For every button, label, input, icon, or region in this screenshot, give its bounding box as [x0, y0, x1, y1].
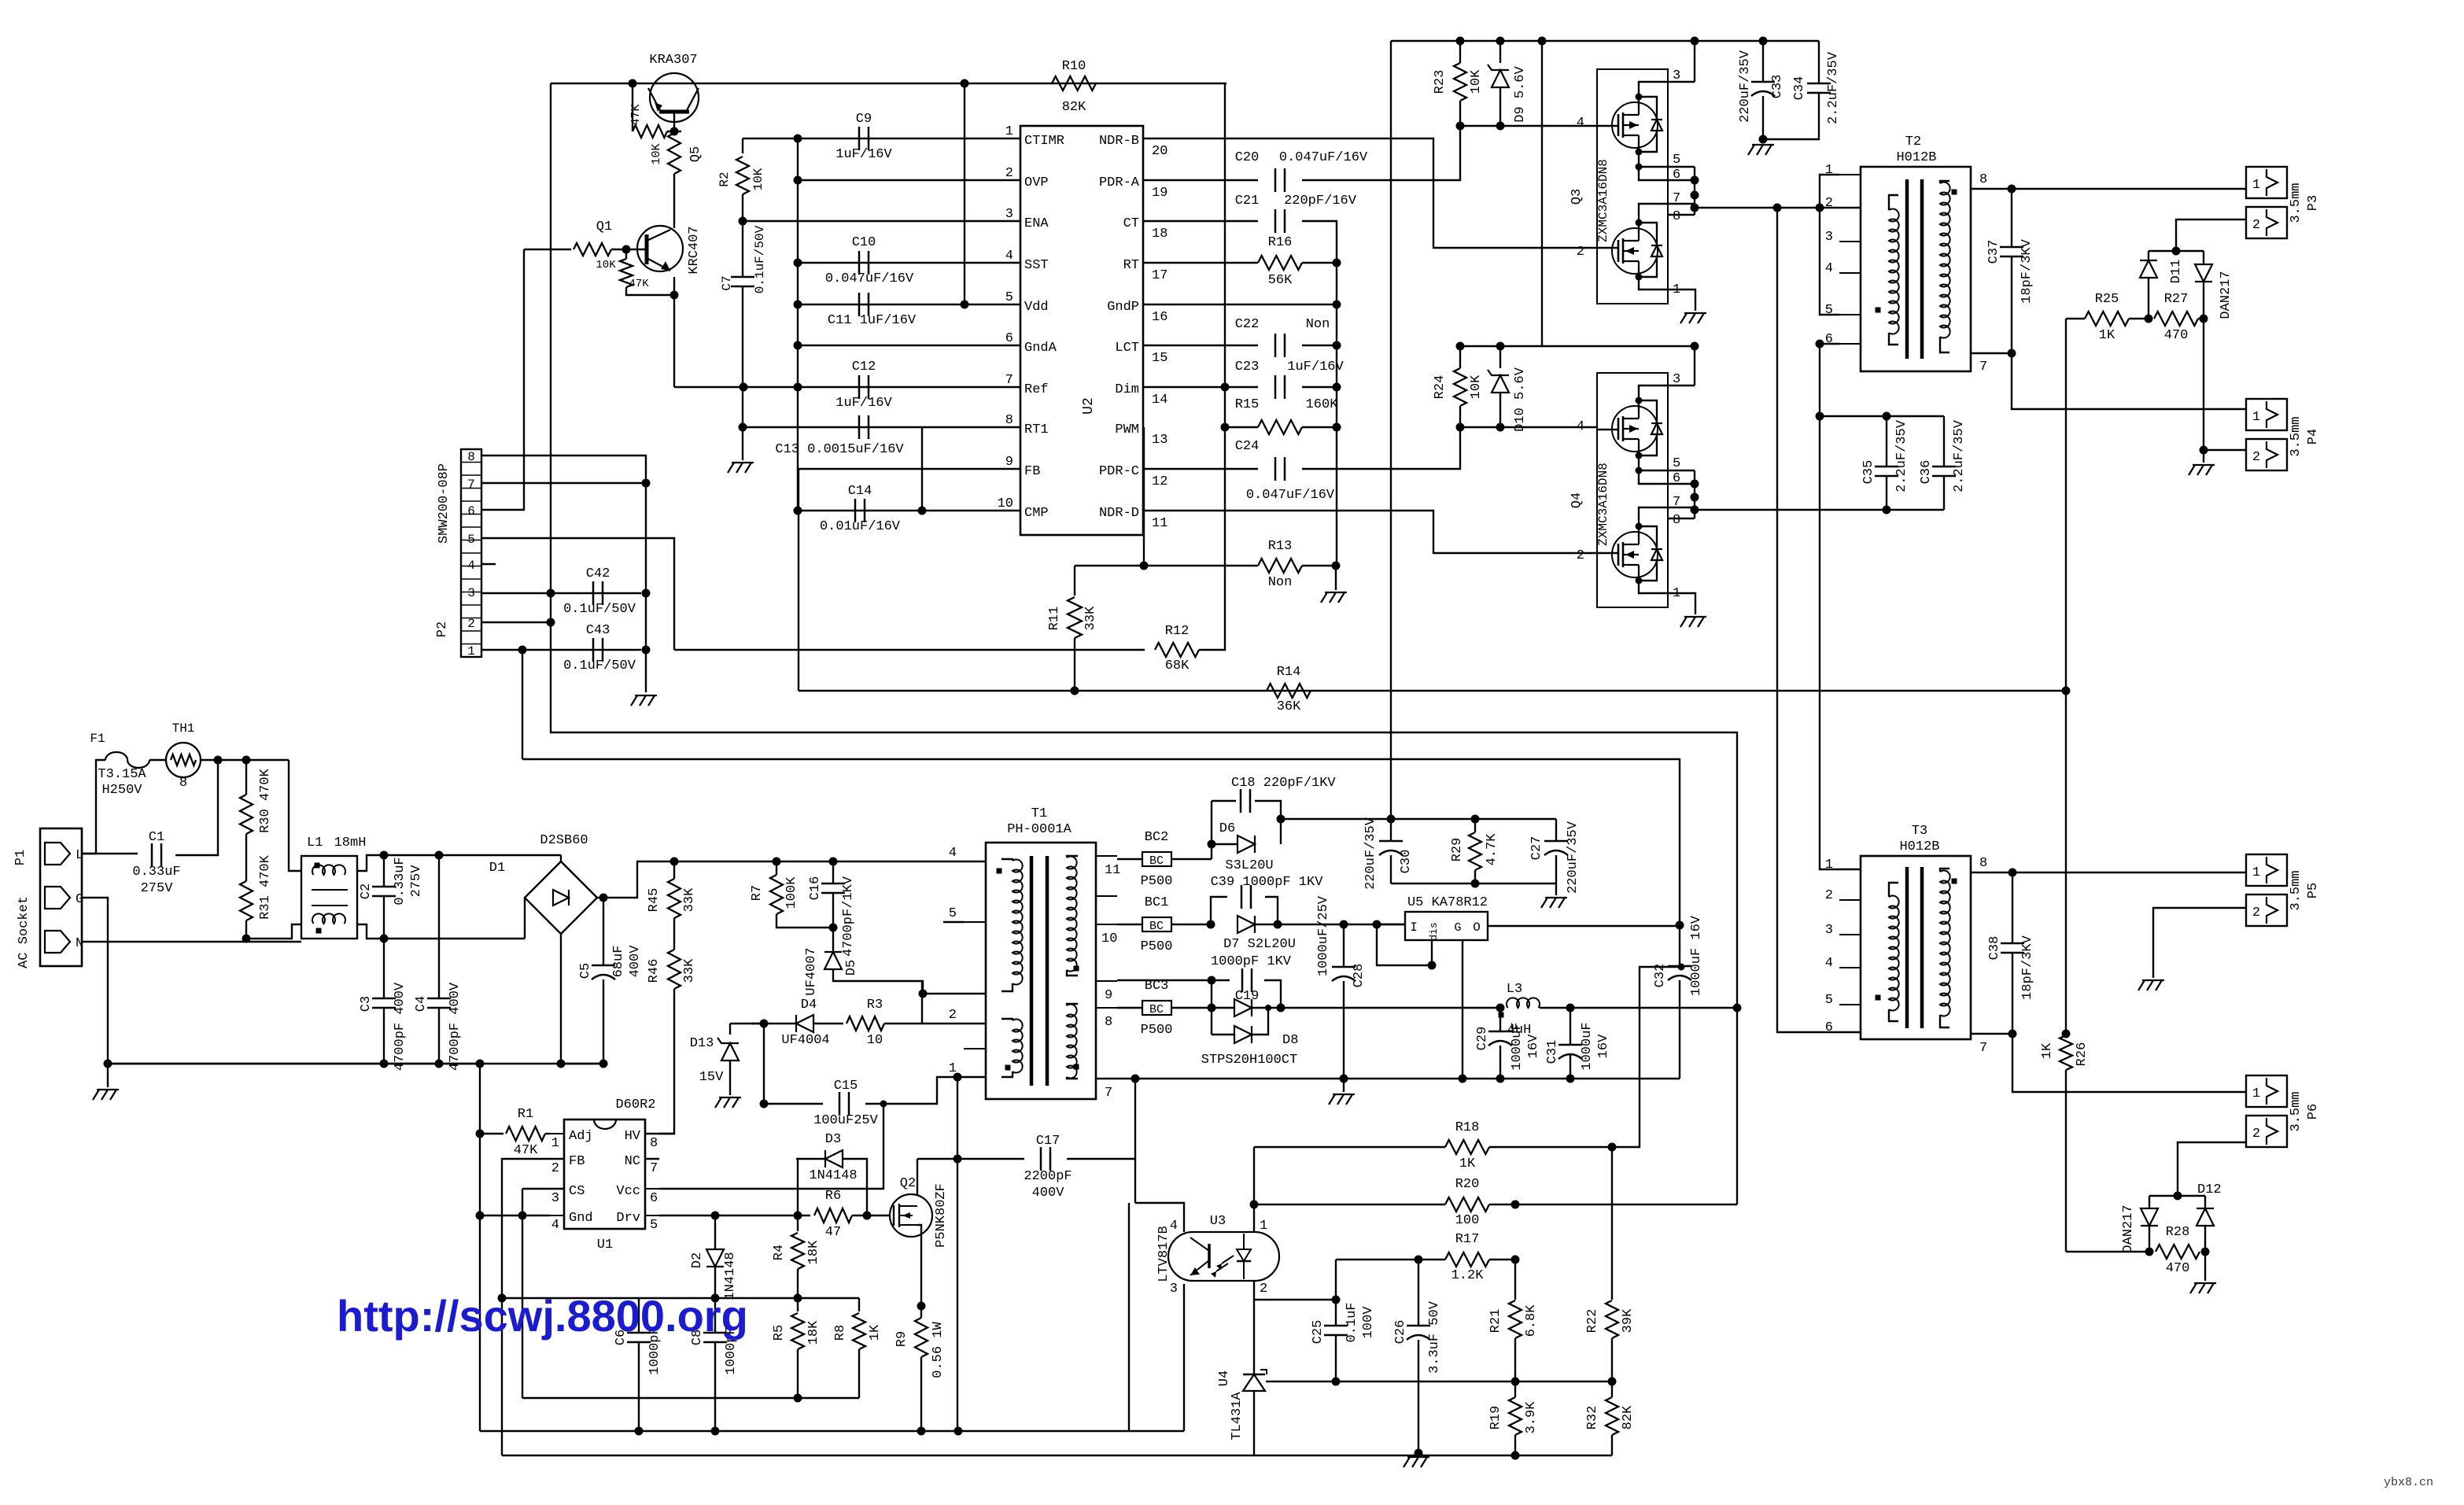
ground G [107, 1064, 109, 1087]
svg-text:2: 2 [949, 1008, 957, 1023]
svg-text:C35: C35 [1861, 460, 1876, 485]
svg-text:82K: 82K [1621, 1405, 1636, 1429]
svg-text:C38: C38 [1987, 936, 2002, 961]
svg-text:3: 3 [1825, 230, 1833, 245]
wire left column [479, 1064, 481, 1134]
svg-text:220pF/16V: 220pF/16V [1284, 194, 1357, 208]
capacitor C11 [858, 293, 861, 316]
svg-text:R15: R15 [1235, 397, 1260, 412]
svg-text:SST: SST [1024, 258, 1049, 273]
svg-text:2: 2 [1577, 548, 1584, 563]
capacitor C8 1000pF [714, 1298, 716, 1332]
svg-text:FB: FB [569, 1154, 585, 1169]
diode D4 UF4004 [796, 1015, 813, 1032]
svg-text:C37: C37 [1986, 240, 2001, 264]
wire T1 pin9 row [1117, 979, 1212, 981]
svg-text:R28: R28 [2166, 1225, 2190, 1240]
svg-text:GndA: GndA [1024, 341, 1057, 356]
svg-text:56K: 56K [1268, 273, 1293, 288]
wire Q5 base [673, 112, 675, 131]
svg-text:5: 5 [650, 1218, 658, 1233]
wire gate bus Q4 [1460, 345, 1542, 347]
svg-text:1uF/16V: 1uF/16V [1287, 360, 1344, 374]
capacitor C31 1000uF 16V [1570, 1008, 1571, 1044]
wire pin2 col to U4 [1253, 1300, 1255, 1373]
junction T2 pin2 [1816, 204, 1824, 212]
resistor R17 1.2K [1336, 1259, 1445, 1260]
fuse BC1 [1142, 917, 1171, 931]
junction R11 bottom [1071, 687, 1079, 695]
T3 pin7 stub [1971, 1033, 2012, 1035]
svg-text:5: 5 [1673, 153, 1680, 168]
wire top bus [1391, 40, 1819, 42]
diode D12 pair DAN217 [2141, 1208, 2158, 1226]
junction C14 right [918, 507, 927, 515]
wire gate4 row Q4 [1460, 426, 1597, 428]
wire N to bridge left [384, 938, 525, 939]
wire P2 pin6 riser to Q1 base [481, 249, 524, 510]
wire Q4 pin1 ground [1667, 593, 1695, 614]
svg-text:P500: P500 [1141, 939, 1173, 954]
snubber C18 loop [1211, 801, 1212, 859]
svg-text:1000pF 1KV: 1000pF 1KV [1211, 954, 1292, 969]
body diode Q4b [1651, 549, 1662, 560]
inductor L1 18mH [301, 856, 357, 939]
ground R28 [2204, 1252, 2206, 1281]
svg-text:400V: 400V [1032, 1186, 1065, 1201]
svg-text:P5NK80ZF: P5NK80ZF [934, 1183, 949, 1248]
body diode Q3b [1651, 245, 1662, 256]
svg-text:1uF/16V: 1uF/16V [835, 147, 892, 162]
svg-text:P5: P5 [2306, 883, 2321, 898]
wire T1 pin8 row [1117, 1007, 1142, 1009]
capacitor C2 [372, 886, 396, 888]
svg-text:C22: C22 [1235, 317, 1260, 332]
svg-text:2: 2 [2252, 450, 2260, 465]
svg-text:C33: C33 [1770, 75, 1785, 99]
wire RT row [1143, 262, 1258, 264]
wire R12 to column [1199, 83, 1225, 650]
svg-text:KRC407: KRC407 [687, 226, 702, 274]
resistor R8 1K [858, 1298, 860, 1311]
resistor R29 4.7K [1474, 819, 1476, 832]
resistor R1 47K [480, 1133, 503, 1134]
resistor R10 [1052, 76, 1096, 90]
svg-text:C18 220pF/1KV: C18 220pF/1KV [1231, 776, 1336, 791]
svg-text:D8: D8 [1282, 1033, 1298, 1048]
svg-text:U5 KA78R12: U5 KA78R12 [1407, 895, 1488, 910]
svg-text:D60R2: D60R2 [615, 1097, 655, 1112]
svg-text:H012B: H012B [1899, 839, 1939, 854]
wire T1 pin11 row [1117, 858, 1142, 860]
transistor Q5 KRA307 [650, 73, 699, 122]
junction cap column [794, 301, 802, 309]
junction right col [1333, 301, 1341, 309]
svg-text:R16: R16 [1268, 235, 1293, 250]
svg-text:470: 470 [2164, 328, 2189, 343]
svg-text:3.3uF 50V: 3.3uF 50V [1427, 1300, 1442, 1374]
junction C31 top [1566, 1004, 1575, 1013]
opto LED [1243, 1234, 1245, 1249]
svg-text:AC Socket: AC Socket [17, 896, 31, 968]
transformer T1 PH-0001A [986, 843, 1096, 1099]
svg-text:C34: C34 [1792, 76, 1807, 101]
svg-text:PWM: PWM [1115, 422, 1139, 437]
regulator U5 KA78R12 [1405, 912, 1488, 940]
svg-text:3.9K: 3.9K [1524, 1401, 1539, 1434]
svg-text:18K: 18K [806, 1240, 821, 1264]
svg-text:18pF/3KV: 18pF/3KV [2020, 238, 2034, 303]
svg-text:C14: C14 [848, 484, 872, 499]
svg-text:33K: 33K [1083, 606, 1098, 630]
resistor R2 [742, 138, 743, 153]
svg-text:P6: P6 [2306, 1104, 2321, 1120]
svg-text:CS: CS [569, 1184, 585, 1199]
svg-text:18mH: 18mH [334, 835, 367, 850]
wire T2 pin6 column [1820, 344, 1861, 869]
svg-text:2: 2 [2252, 1127, 2260, 1142]
wire P2 pin5 row [481, 538, 674, 650]
wire SST row [798, 262, 1020, 264]
svg-text:100uF25V: 100uF25V [813, 1113, 878, 1128]
zener D9 5.6V [1496, 37, 1505, 46]
resistor R16 [1258, 256, 1302, 270]
svg-text:C11 1uF/16V: C11 1uF/16V [828, 313, 917, 328]
resistor R14 [1267, 684, 1311, 698]
svg-text:8: 8 [1005, 413, 1013, 428]
wire LCT row [1143, 345, 1258, 346]
svg-text:C15: C15 [834, 1079, 858, 1094]
svg-text:3: 3 [1005, 207, 1013, 222]
wire R2 bottom to ENA [742, 194, 743, 221]
wire Q3 out to T2 pin2 [1773, 204, 1782, 212]
wire opto pin3 [1183, 1284, 1185, 1431]
capacitor C32 1000uF 16V [1679, 925, 1680, 965]
svg-text:1: 1 [2252, 865, 2260, 880]
resistor 10K Q5 [668, 133, 681, 174]
wire Vcc [659, 1104, 883, 1189]
svg-text:R25: R25 [2095, 292, 2119, 307]
svg-text:P4: P4 [2306, 429, 2321, 444]
svg-text:2.2uF/35V: 2.2uF/35V [1952, 419, 1967, 492]
svg-text:4700pF 400V: 4700pF 400V [393, 982, 408, 1071]
IC U2 box [1020, 126, 1143, 535]
wire R28 row [2066, 1251, 2149, 1252]
junction cap column [794, 176, 802, 185]
wire Q5 to Q1 [673, 174, 675, 228]
wire bridge minus [560, 934, 562, 1064]
svg-text:16: 16 [1152, 310, 1167, 325]
Q4 outline box [1597, 373, 1668, 607]
wire D6 out to C30 rail [1281, 818, 1556, 820]
capacitor C29 1000uF 16V [1499, 1008, 1501, 1031]
wire P3 pin2 [2176, 219, 2246, 251]
wire bus to Q4 [1541, 41, 1543, 346]
transistor Q3 mosfet B [1612, 228, 1658, 274]
junction R27 right [2200, 315, 2208, 323]
svg-text:C16: C16 [808, 876, 823, 901]
svg-text:10K: 10K [1469, 374, 1484, 399]
wire Q4 pin3 to bus [1667, 385, 1695, 386]
svg-text:C13 0.0015uF/16V: C13 0.0015uF/16V [775, 442, 904, 457]
svg-text:1uF/16V: 1uF/16V [835, 396, 892, 411]
resistor R3 10 [847, 1016, 884, 1031]
svg-text:275V: 275V [409, 865, 424, 898]
resistor R26 1K [2060, 1035, 2072, 1070]
svg-text:T3.15A: T3.15A [98, 767, 146, 782]
ground C33 [1748, 145, 1754, 155]
capacitor C1 [82, 853, 96, 854]
diode D7 S2L20U [1238, 916, 1255, 933]
wire TH1 right [201, 759, 289, 761]
svg-text:19: 19 [1152, 186, 1167, 201]
svg-text:F1: F1 [90, 732, 105, 746]
junction C16 bottom [829, 924, 838, 932]
svg-text:T3: T3 [1912, 824, 1927, 839]
capacitor C13 [858, 415, 861, 439]
capacitor C15 100uF25V [764, 1103, 823, 1105]
diode D2 1N4148 [714, 1215, 716, 1249]
svg-text:D13: D13 [690, 1036, 714, 1051]
svg-text:0.1uF/50V: 0.1uF/50V [563, 658, 636, 673]
wire R20 right [1515, 1204, 1737, 1205]
svg-text:C25: C25 [1311, 1320, 1326, 1345]
svg-text:BC2: BC2 [1145, 830, 1169, 845]
wire Q1 emitter network [626, 287, 674, 295]
svg-text:2: 2 [1577, 245, 1584, 260]
svg-text:220uF/35V: 220uF/35V [1738, 50, 1753, 123]
wire PWM drop [1143, 427, 1145, 566]
wire NDR-B row to Q3 gate2 [1143, 138, 1597, 248]
wire R14 column [2065, 691, 2067, 1034]
resistor R45 33K [673, 861, 675, 879]
connector P4 3.5mm [2246, 399, 2287, 430]
svg-text:R21: R21 [1488, 1309, 1503, 1333]
svg-text:2.2uF/35V: 2.2uF/35V [1894, 419, 1909, 492]
svg-text:2200pF: 2200pF [1024, 1169, 1072, 1184]
svg-text:R24: R24 [1433, 375, 1448, 400]
wire riser column 700 [550, 83, 551, 732]
wire R10 top line [551, 83, 1226, 84]
junction right col [1333, 259, 1341, 267]
wire gnd rail under T1 [1096, 1078, 1680, 1079]
svg-text:S3L20U: S3L20U [1225, 858, 1273, 873]
wire T1 pin5 [943, 921, 964, 923]
svg-text:ZXMC3A16DN8: ZXMC3A16DN8 [1596, 463, 1610, 546]
ground U2 left [728, 463, 734, 473]
connector P1 AC socket [40, 828, 82, 966]
junction bus [1538, 37, 1547, 46]
svg-text:4700pF/1KV: 4700pF/1KV [841, 876, 856, 957]
connector P2 SMW200-08P [461, 449, 481, 657]
svg-text:3: 3 [1825, 923, 1833, 938]
resistor R9 0.56 1W [915, 1318, 928, 1357]
svg-text:U2: U2 [1081, 397, 1097, 415]
wire NDR-D to Q4 gate2 [1143, 511, 1597, 553]
svg-text:6: 6 [467, 504, 475, 518]
svg-text:R3: R3 [867, 998, 883, 1013]
svg-text:10: 10 [998, 496, 1013, 511]
wire gnd column [645, 483, 647, 692]
resistor 47K Q1 [625, 249, 627, 259]
wire P2 pin2 row [481, 622, 551, 623]
capacitor C42 [551, 592, 641, 594]
resistor R18 1K [1254, 1146, 1445, 1148]
diode D3 1N4148 [796, 1159, 798, 1215]
svg-text:LCT: LCT [1115, 341, 1139, 356]
junction pin1 riser [518, 646, 527, 655]
junction pin7 gnd [642, 479, 651, 488]
svg-text:Adj: Adj [569, 1129, 593, 1144]
svg-text:1: 1 [1260, 1219, 1267, 1234]
svg-text:Vdd: Vdd [1024, 300, 1049, 315]
svg-text:U3: U3 [1210, 1214, 1226, 1229]
svg-text:4: 4 [1825, 261, 1833, 276]
svg-text:Non: Non [1306, 317, 1330, 332]
resistor R12 [1155, 643, 1199, 657]
svg-text:10K: 10K [1469, 69, 1484, 94]
svg-text:R8: R8 [833, 1325, 848, 1341]
diode D6 S3L20U [1212, 843, 1238, 845]
resistor R6 47 [814, 1208, 852, 1223]
wire FB loop [502, 1159, 564, 1298]
svg-text:8: 8 [1979, 856, 1987, 871]
resistor R21 6.8K [1514, 1260, 1516, 1300]
svg-text:STPS20H100CT: STPS20H100CT [1201, 1053, 1297, 1068]
svg-text:4700pF 400V: 4700pF 400V [448, 982, 463, 1071]
Q4 internal wires [1597, 429, 1618, 430]
svg-text:14: 14 [1152, 393, 1167, 408]
svg-text:Ref: Ref [1024, 382, 1049, 397]
svg-text:8: 8 [467, 450, 475, 464]
junction R25/R27 [2145, 315, 2153, 323]
svg-text:P500: P500 [1141, 874, 1173, 889]
svg-text:TH1: TH1 [172, 721, 195, 736]
svg-text:2: 2 [1825, 888, 1833, 903]
svg-text:Q2: Q2 [900, 1176, 916, 1191]
ground P2 caps [631, 695, 637, 706]
wire Drv row [659, 1215, 810, 1216]
svg-text:4: 4 [551, 1218, 559, 1233]
svg-text:C30: C30 [1399, 850, 1414, 874]
svg-text:R2: R2 [717, 172, 732, 186]
resistor R25 [2085, 312, 2129, 326]
resistor R15 [1258, 420, 1302, 434]
junction D6 anode [1208, 840, 1216, 849]
svg-text:T1: T1 [1031, 806, 1047, 821]
svg-text:4.7K: 4.7K [1485, 833, 1499, 866]
svg-text:R23: R23 [1433, 70, 1448, 94]
svg-text:275V: 275V [141, 881, 174, 896]
svg-text:1: 1 [1005, 124, 1013, 139]
svg-text:NC: NC [625, 1154, 640, 1169]
svg-text:16V: 16V [1526, 1034, 1541, 1058]
svg-text:3.5mm: 3.5mm [2289, 870, 2304, 910]
svg-text:8: 8 [1979, 172, 1987, 187]
svg-text:5: 5 [1825, 993, 1833, 1008]
wire D5 to T1 pin6 [833, 969, 923, 994]
wire C21 right column [1302, 221, 1337, 566]
zener D13 15V [721, 1043, 739, 1061]
capacitor C17 2200pF 400V [1040, 1147, 1042, 1171]
wire T1 pin10 row [1117, 924, 1142, 925]
svg-text:BC1: BC1 [1145, 895, 1169, 910]
svg-text:D2SB60: D2SB60 [540, 833, 588, 848]
svg-text:CTIMR: CTIMR [1024, 134, 1064, 149]
svg-text:ybx8.cn: ybx8.cn [2384, 1476, 2433, 1489]
wire C7 to ground [742, 286, 743, 460]
wire earth bus [108, 1063, 603, 1064]
svg-text:160K: 160K [1306, 397, 1339, 412]
svg-text:D9 5.6V: D9 5.6V [1513, 66, 1528, 123]
svg-text:Q5: Q5 [688, 146, 703, 162]
svg-text:C4: C4 [414, 996, 429, 1012]
svg-text:R1: R1 [518, 1107, 533, 1122]
wire NC stub [645, 1158, 659, 1160]
svg-text:7: 7 [650, 1161, 658, 1176]
svg-text:R4: R4 [772, 1245, 787, 1260]
svg-text:NDR-B: NDR-B [1099, 134, 1139, 149]
svg-text:47K: 47K [629, 278, 649, 290]
transistor Q4 mosfet B [1612, 532, 1658, 577]
svg-text:L: L [76, 848, 83, 863]
wire OVP row [798, 179, 1020, 181]
wire +out line 930 [550, 732, 1737, 1008]
svg-text:1000uF: 1000uF [1510, 1022, 1525, 1070]
svg-text:C17: C17 [1036, 1134, 1060, 1149]
svg-text:1K: 1K [1459, 1156, 1476, 1171]
resistor R11 [1074, 566, 1075, 596]
wire C24 to gate4 row [1302, 427, 1460, 469]
wire pin5 / R12 line [674, 649, 1145, 651]
svg-text:BC: BC [1149, 920, 1164, 933]
capacitor C12 [858, 375, 861, 399]
wire gnd bus to C5 [561, 1063, 603, 1064]
svg-text:SMW200-08P: SMW200-08P [437, 463, 452, 544]
capacitor C9 [858, 127, 861, 150]
wire to bridge top [384, 854, 561, 856]
svg-text:39K: 39K [1621, 1308, 1636, 1333]
wire R11 top row [1075, 565, 1258, 566]
svg-text:3: 3 [1170, 1282, 1178, 1297]
svg-text:5: 5 [949, 906, 957, 921]
wire gate4 row Q3 [1460, 125, 1597, 127]
svg-text:0.01uF/16V: 0.01uF/16V [820, 519, 901, 534]
wire output riser to R20 [1736, 1008, 1738, 1204]
junction cap column [794, 259, 802, 267]
svg-text:17: 17 [1152, 268, 1167, 283]
svg-text:36K: 36K [1277, 699, 1301, 714]
wire N row [82, 941, 301, 942]
optocoupler U3 LTV817B [1193, 1232, 1255, 1281]
svg-text:O: O [1473, 920, 1481, 935]
wire CTIMR row [743, 138, 1020, 139]
wire Gnd row [480, 1215, 550, 1216]
svg-text:0.33uF: 0.33uF [393, 857, 408, 905]
capacitor C3 [383, 939, 385, 998]
capacitor C22 [1274, 334, 1277, 357]
T1 aux winding [1013, 1020, 1023, 1073]
svg-text:1000uF/25V: 1000uF/25V [1316, 895, 1331, 976]
svg-text:Dim: Dim [1115, 382, 1139, 397]
capacitor C10 [858, 251, 861, 275]
wire HV [659, 1133, 674, 1134]
svg-text:13: 13 [1152, 433, 1167, 448]
svg-text:C27: C27 [1529, 836, 1544, 861]
junction U1 column on earth bus [476, 1060, 485, 1068]
wire opto vert 1435 [1128, 1203, 1130, 1431]
svg-text:I: I [1410, 920, 1418, 935]
